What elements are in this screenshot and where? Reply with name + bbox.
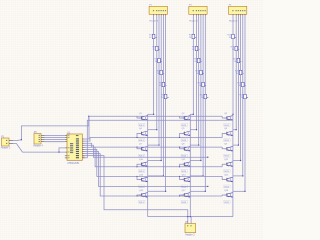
- resistor R3 1K: [155, 58, 162, 63]
- wire: IC pin 1 to row-1 bases: [85, 116, 138, 139]
- junction: group 1 wire 2: [156, 129, 157, 130]
- transistor Q15 9013 (row 5, col 3): [224, 174, 234, 188]
- pin lead: P5 pin 3: [41, 139, 45, 141]
- wire: row-5 base stub col 3: [222, 176, 227, 179]
- wire: row-3 base stub col 2: [180, 147, 185, 149]
- junction: group 3 wire 5: [242, 175, 243, 176]
- wire: R13 lead to Q col 3 row 1 collector: [232, 113, 234, 115]
- junction: group 2 wire 5: [203, 175, 204, 176]
- pin lead: P4 pin 2: [235, 14, 237, 15]
- connector P3 (Header 6): [189, 4, 207, 22]
- junction: base stub: [137, 176, 138, 177]
- transistor Q18 9013 (row 6, col 3): [224, 190, 234, 204]
- resistor R16 1K: [235, 70, 244, 75]
- wire: row-6 base stub col 2: [180, 195, 185, 196]
- wire: row-3 base stub col 1: [137, 147, 142, 149]
- wire: IC pin 8 run to row-6 bases: [85, 154, 223, 196]
- wire: row-6 base stub col 3: [222, 195, 227, 196]
- resistor R6 1K: [161, 94, 168, 99]
- pin lead: P1 pin2: [9, 143, 13, 145]
- transistor Q5 9013 (row 2, col 2): [181, 128, 191, 142]
- resistor R18 1K: [239, 94, 248, 99]
- wire: branch to IC pin 4: [59, 148, 65, 152]
- wire: R8 lead to Q col 2 row 2 collector: [190, 129, 196, 131]
- resistor R8 1K: [192, 46, 199, 51]
- pin lead: P5 pin 1: [41, 134, 45, 136]
- connector P4 (Header 6): [229, 4, 247, 22]
- pin lead: P5 pin 2: [41, 137, 45, 139]
- resistor R14 1K: [231, 46, 240, 51]
- wire: IC pin 7 run across grid: [85, 152, 208, 187]
- wire: R14 lead to Q col 3 row 2 collector: [233, 129, 236, 131]
- connector P1 (Header 2) left: [1, 136, 11, 149]
- wire: row-5 base stub col 2: [180, 176, 185, 179]
- svg-text:Header 2: Header 2: [185, 234, 195, 237]
- pin lead: P3 pin 2: [196, 14, 198, 15]
- svg-text:9: 9: [83, 158, 84, 160]
- resistor R5 1K: [159, 82, 166, 87]
- wire: P3 pin 2 down through R8 to row 2 feed: [196, 16, 198, 130]
- wire: P2 pin 1 down through R1 to row 1 feed: [153, 16, 155, 115]
- junction: base stub: [137, 147, 138, 148]
- junction: group 1 wire 5: [163, 175, 164, 176]
- wire: P4 pin 6 down through R18 to row 6 feed: [244, 16, 246, 192]
- wire: P4 pin 4 down through R16 to row 4 feed: [240, 16, 242, 161]
- pin lead: P1 pin1: [9, 140, 13, 142]
- transistor Q8 9013 (row 3, col 2): [181, 144, 191, 158]
- resistor R2 1K: [152, 46, 159, 51]
- wire: row-2 base stub col 1: [137, 133, 142, 137]
- wire: R5 lead to Q col 1 row 5 collector: [148, 175, 164, 177]
- junction: P1 pin1 net: [21, 139, 22, 140]
- wire: R4 lead to Q col 1 row 4 collector: [148, 160, 162, 162]
- wire: R2 lead to Q col 1 row 2 collector: [148, 129, 157, 131]
- wire: emitter ground bus: [148, 216, 233, 218]
- wire: R18 lead to Q col 3 row 6 collector: [233, 190, 245, 192]
- svg-text:Header 2: Header 2: [1, 147, 11, 150]
- wire: P4 pin 1 down through R13 to row 1 feed: [232, 16, 234, 115]
- junction: group 3 wire 1: [232, 114, 233, 115]
- resistor R13 1K: [227, 34, 236, 39]
- wire: P4 pin 3 down through R15 to row 3 feed: [237, 16, 239, 146]
- wire: P1 pin1 to net junction: [13, 139, 21, 142]
- wire: R15 lead to Q col 3 row 3 collector: [233, 144, 239, 146]
- wire: R9 lead to Q col 2 row 3 collector: [190, 144, 198, 146]
- wire: row-2 base stub col 3: [222, 133, 227, 137]
- wire: ground bus to bottom connector pin 2: [190, 217, 192, 224]
- transistor Q14 9013 (row 5, col 2): [181, 174, 191, 188]
- svg-text:Header 6: Header 6: [189, 19, 198, 22]
- wire: row-5 base stub col 1: [137, 176, 142, 179]
- transistor Q9 9013 (row 3, col 3): [224, 144, 234, 158]
- wire: IC pin 4 run across grid: [85, 145, 208, 157]
- junction: base stub: [179, 137, 180, 138]
- pin lead: P2 pin 2: [156, 14, 158, 15]
- wire: row-4 base stub col 3: [222, 164, 227, 167]
- pin lead: P3 pin 4: [200, 14, 202, 15]
- transistor Q10 9013 (row 4, col 1): [139, 159, 149, 173]
- junction: bus / P6 pin1: [187, 216, 188, 217]
- resistor R4 1K: [157, 70, 164, 75]
- IC U1 AT89C2051: [65, 132, 85, 165]
- wire: row-2 base stub col 2: [180, 133, 185, 137]
- transistor Q3 9013 (row 1, col 3): [224, 113, 234, 127]
- wire: R16 lead to Q col 3 row 4 collector: [233, 160, 241, 162]
- pin lead: P4 pin 6: [244, 14, 246, 15]
- wire: R12 lead to Q col 2 row 6 collector: [190, 190, 205, 192]
- junction: group 2 wire 2: [196, 129, 197, 130]
- wire: P3 pin 4 down through R10 to row 4 feed: [200, 16, 202, 161]
- transistor Q6 9013 (row 2, col 3): [224, 128, 234, 142]
- junction: P1 net joins row-1 feed: [88, 116, 89, 117]
- junction: group 3 wire 4: [240, 160, 241, 161]
- wire: R17 lead to Q col 3 row 5 collector: [233, 175, 243, 177]
- wire: R10 lead to Q col 2 row 4 collector: [190, 160, 201, 162]
- wire: P5 pin 4 to IC pin 4: [45, 141, 65, 143]
- wire: column 2 collector-emitter vertical to ground bus: [189, 114, 191, 216]
- transistor Q12 9013 (row 4, col 3): [224, 159, 234, 173]
- wire: P3 pin 6 down through R12 to row 6 feed: [204, 16, 206, 192]
- transistor Q17 9013 (row 6, col 2): [181, 190, 191, 204]
- junction: base stub: [137, 166, 138, 167]
- junction: group 3 wire 6: [244, 191, 245, 192]
- junction: run end: [207, 157, 208, 158]
- wire: column 1 collector-emitter vertical to ground bus: [147, 114, 149, 216]
- resistor R9 1K: [194, 58, 201, 63]
- connector P2 (Header 6): [149, 4, 167, 22]
- wire: R3 lead to Q col 1 row 3 collector: [148, 144, 159, 146]
- resistor R15 1K: [233, 58, 242, 63]
- pin lead: P3 pin 5: [202, 14, 204, 15]
- junction: base stub: [179, 196, 180, 197]
- pin lead: P3 pin 6: [204, 14, 206, 15]
- wire: P5 pin 1 to IC pin 1: [45, 134, 65, 136]
- wire: row-6 base stub col 1: [137, 195, 142, 196]
- junction: group 1 wire 6: [165, 191, 166, 192]
- transistor Q4 9013 (row 2, col 1): [139, 128, 149, 142]
- pin lead: P3 pin 3: [198, 14, 200, 15]
- junction: base stub: [137, 196, 138, 197]
- wire: row-1 feed elbows: [137, 116, 142, 118]
- wire: R11 lead to Q col 2 row 5 collector: [190, 175, 203, 177]
- junction: group 1 wire 1: [153, 114, 154, 115]
- resistor R17 1K: [237, 82, 246, 87]
- junction: base stub: [137, 137, 138, 138]
- svg-text:Header 6: Header 6: [229, 19, 238, 22]
- resistor R11 1K: [198, 82, 206, 87]
- wire: P2 pin 3 down through R3 to row 3 feed: [158, 16, 160, 146]
- connector P5 (Header 4): [33, 132, 43, 148]
- pin lead: P2 pin 4: [160, 14, 162, 15]
- wire: net from P1 top loop to row-1 feed: [21, 116, 88, 139]
- wire: P5 pin 2 to IC pin 2: [45, 137, 65, 139]
- junction: group 2 wire 1: [193, 114, 194, 115]
- wire: P2 pin 6 down through R6 to row 6 feed: [165, 16, 167, 192]
- transistor Q1 9013 (row 1, col 1): [139, 113, 149, 127]
- wire: P1 pin2 to IC: [13, 144, 65, 153]
- junction: base stub: [179, 176, 180, 177]
- pin lead: P4 pin 1: [232, 14, 234, 15]
- pin lead: P5 pin 4: [41, 141, 45, 143]
- resistor R12 1K: [200, 94, 209, 99]
- wire: P4 pin 5 down through R17 to row 5 feed: [242, 16, 244, 176]
- wire: P2 pin 4 down through R4 to row 4 feed: [160, 16, 162, 161]
- wire: P3 pin 3 down through R9 to row 3 feed: [198, 16, 200, 146]
- connector P6 (Header 2) bottom: [185, 222, 196, 237]
- wire: IC pin 9 to bottom connector pin 1: [85, 156, 188, 224]
- wire: P3 pin 1 down through R7 to row 1 feed: [192, 16, 194, 115]
- wire: IC pin 2 run to row-2 bases: [85, 138, 223, 142]
- wire: row-4 base stub col 2: [180, 164, 185, 167]
- svg-text:Header 4: Header 4: [33, 145, 43, 148]
- junction: bus / col2 emitter: [190, 216, 191, 217]
- wire: P2 pin 5 down through R5 to row 5 feed: [162, 16, 164, 176]
- junction: group 1 wire 4: [161, 160, 162, 161]
- junction: base stub: [179, 166, 180, 167]
- junction: base stub: [179, 147, 180, 148]
- pin lead: P2 pin 3: [158, 14, 160, 15]
- transistor Q7 9013 (row 3, col 1): [139, 144, 149, 158]
- transistor Q11 9013 (row 4, col 2): [181, 159, 191, 173]
- wire: P5 pin 3 to IC pin 3: [45, 139, 65, 141]
- junction: group 2 wire 4: [200, 160, 201, 161]
- resistor R7 1K: [189, 34, 196, 39]
- junction: group 2 wire 6: [205, 191, 206, 192]
- pin lead: P2 pin 1: [153, 14, 155, 15]
- wire: IC pin 10 run under row 1: [85, 120, 234, 157]
- pin lead: P3 pin 1: [192, 14, 194, 15]
- resistor R10 1K: [195, 70, 204, 75]
- wire: R7 lead to Q col 2 row 1 collector: [190, 113, 193, 115]
- junction: group 3 wire 3: [238, 145, 239, 146]
- pin lead: P4 pin 4: [240, 14, 242, 15]
- svg-text:Header 6: Header 6: [150, 19, 159, 22]
- junction: run end: [207, 186, 208, 187]
- wire: R6 lead to Q col 1 row 6 collector: [148, 190, 166, 192]
- wire: row-3 base stub col 3: [222, 147, 227, 149]
- transistor Q13 9013 (row 5, col 1): [139, 174, 149, 188]
- junction: group 1 wire 3: [158, 145, 159, 146]
- wire: P3 pin 5 down through R11 to row 5 feed: [202, 16, 204, 176]
- junction: group 2 wire 3: [198, 145, 199, 146]
- pin lead: P2 pin 5: [162, 14, 164, 15]
- pin lead: P4 pin 3: [237, 14, 239, 15]
- wire: P4 pin 2 down through R14 to row 2 feed: [235, 16, 237, 130]
- wire: IC pin 3 run to row-3 bases: [85, 143, 223, 147]
- wire: P2 pin 2 down through R2 to row 2 feed: [156, 16, 158, 130]
- junction: IC pin branch: [58, 152, 59, 153]
- wire: IC pin 6 run to row-5 bases: [85, 149, 223, 176]
- svg-text:AT89C2051: AT89C2051: [67, 162, 80, 165]
- transistor Q2 9013 (row 1, col 2): [181, 113, 191, 127]
- transistor Q16 9013 (row 6, col 1): [139, 190, 149, 204]
- pin lead: P2 pin 6: [165, 14, 167, 15]
- wire: IC pin 5 run to row-4 bases: [85, 147, 223, 167]
- resistor R1 1K: [149, 34, 156, 39]
- wire: column 3 collector-emitter vertical to ground bus: [232, 114, 234, 216]
- wire: row-4 base stub col 1: [137, 164, 142, 167]
- junction: group 3 wire 2: [236, 129, 237, 130]
- pin lead: P4 pin 5: [242, 14, 244, 15]
- wire: R1 lead to Q col 1 row 1 collector: [148, 113, 154, 115]
